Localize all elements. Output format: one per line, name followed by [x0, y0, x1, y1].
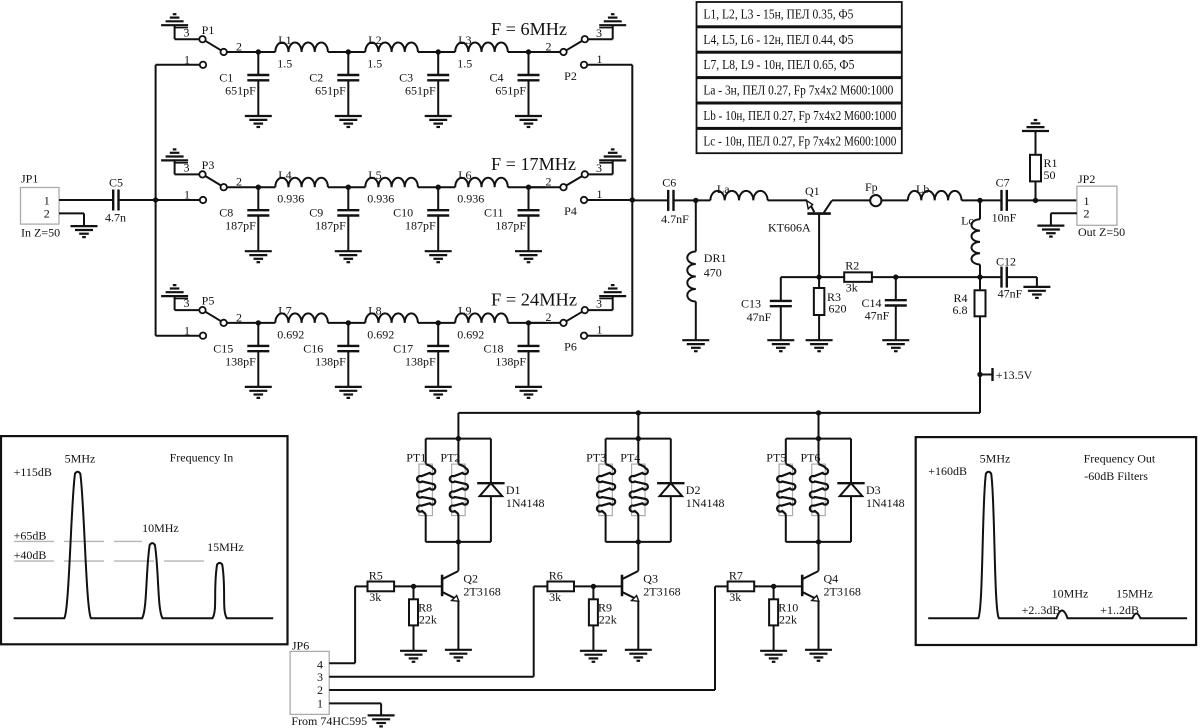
- svg-text:PT1: PT1: [406, 451, 426, 465]
- wire C12 left: [980, 276, 1002, 278]
- node F label F = 6MHz: [491, 19, 567, 39]
- wire C12 right: [1007, 277, 1037, 287]
- ground R1: [1022, 120, 1049, 131]
- capacitor C2: [309, 49, 359, 116]
- svg-text:3: 3: [184, 296, 190, 310]
- svg-text:651pF: 651pF: [225, 84, 256, 98]
- svg-text:47nF: 47nF: [747, 310, 772, 324]
- wire PT3 bottom: [605, 516, 607, 542]
- wire base Q3: [574, 584, 622, 589]
- wire C13 top: [780, 277, 782, 301]
- transformer PT2: [440, 451, 468, 516]
- capacitor C8: [219, 185, 269, 252]
- inductor L6: [455, 168, 508, 206]
- wire R10 bottom: [773, 625, 775, 650]
- ground C14: [882, 340, 909, 351]
- node bottom bus PT5: [786, 539, 851, 544]
- svg-text:1.5: 1.5: [457, 57, 472, 71]
- resistor R8: [409, 599, 437, 626]
- svg-text:22k: 22k: [419, 613, 437, 627]
- svg-text:0.692: 0.692: [457, 327, 484, 341]
- svg-text:1N4148: 1N4148: [866, 496, 905, 510]
- svg-text:651pF: 651pF: [405, 84, 436, 98]
- wire R3 top: [818, 277, 820, 288]
- node Frequency Out curve: [928, 472, 1187, 618]
- inductor Lb: [908, 182, 962, 200]
- svg-text:0.692: 0.692: [367, 327, 394, 341]
- wire D3 top: [850, 439, 852, 484]
- wire Q3 collector: [637, 542, 639, 571]
- wire D1 top: [490, 439, 492, 484]
- node F label F = 24MHz: [491, 290, 577, 310]
- svg-text:DR1: DR1: [704, 251, 727, 265]
- ground switch P3: [161, 149, 199, 174]
- wire PT4 bottom: [637, 516, 639, 542]
- resistor R2: [844, 259, 872, 295]
- wire R1 top: [1035, 131, 1037, 155]
- wire R4 top: [979, 277, 981, 290]
- wire base Q2: [394, 584, 442, 589]
- svg-text:C8: C8: [219, 206, 233, 220]
- wire DR1 top: [695, 200, 697, 251]
- transistor Q4: [802, 571, 861, 601]
- svg-text:JP1: JP1: [21, 171, 38, 185]
- svg-text:+40dB: +40dB: [14, 548, 47, 562]
- svg-text:L2: L2: [368, 33, 381, 47]
- svg-text:138pF: 138pF: [315, 354, 346, 368]
- svg-text:3k: 3k: [549, 590, 561, 604]
- svg-text:L8: L8: [368, 304, 381, 318]
- svg-text:F = 17MHz: F = 17MHz: [491, 154, 576, 174]
- capacitor C4: [489, 49, 539, 116]
- svg-text:470: 470: [704, 266, 722, 280]
- wire JP2 pin2: [1051, 213, 1077, 225]
- ground C18: [515, 387, 542, 398]
- svg-text:+65dB: +65dB: [14, 529, 47, 543]
- capacitor C11: [484, 185, 540, 252]
- svg-text:3k: 3k: [729, 590, 741, 604]
- capacitor C3: [399, 49, 449, 116]
- wire JP1 pin1: [59, 199, 113, 201]
- svg-text:L6: L6: [458, 168, 471, 182]
- svg-text:50: 50: [1044, 168, 1056, 182]
- switch P1: [156, 23, 242, 68]
- wire PT2 bottom: [457, 516, 459, 542]
- wire JP1 pin2: [59, 213, 84, 226]
- svg-text:2: 2: [317, 683, 323, 697]
- transistor Q3: [622, 571, 681, 601]
- wire DR1 bottom: [695, 302, 697, 341]
- ground switch P4: [599, 149, 626, 162]
- inductor DR1: [687, 251, 726, 302]
- svg-text:2T3168: 2T3168: [463, 585, 500, 599]
- svg-text:PT5: PT5: [766, 451, 786, 465]
- resistor R7: [728, 568, 755, 604]
- svg-text:2: 2: [1084, 206, 1090, 220]
- svg-text:1.5: 1.5: [277, 57, 292, 71]
- wire Q4 collector: [818, 542, 820, 571]
- switch P4: [546, 160, 633, 218]
- node Frequency Out box: [916, 437, 1196, 645]
- svg-text:187pF: 187pF: [225, 219, 256, 233]
- wire PT1 bottom: [425, 516, 427, 542]
- transformer PT4: [620, 451, 648, 516]
- svg-text:PT3: PT3: [586, 451, 606, 465]
- svg-text:+1..2dB: +1..2dB: [1100, 603, 1139, 617]
- svg-text:47nF: 47nF: [865, 309, 890, 323]
- wire C14 bottom: [895, 306, 897, 341]
- svg-text:1: 1: [184, 323, 190, 337]
- wire bias line: [781, 274, 844, 279]
- inductor La: [710, 182, 767, 200]
- ground switch P2: [599, 14, 626, 27]
- node +13.5V: [977, 368, 1032, 382]
- ground C17: [425, 387, 452, 398]
- svg-text:4.7n: 4.7n: [105, 211, 126, 225]
- svg-text:From 74HC595: From 74HC595: [291, 714, 367, 728]
- svg-text:47nF: 47nF: [998, 287, 1023, 301]
- ground C16: [335, 387, 362, 398]
- svg-text:JP6: JP6: [292, 638, 309, 652]
- capacitor C17: [393, 320, 449, 387]
- ground R8: [400, 651, 427, 662]
- svg-text:F = 6MHz: F = 6MHz: [491, 19, 567, 39]
- svg-text:P2: P2: [564, 69, 577, 83]
- ground C12: [1023, 287, 1050, 298]
- inductor L2: [365, 33, 418, 71]
- node Frequency Out labels: [928, 451, 1156, 617]
- svg-text:Lb: Lb: [916, 182, 929, 196]
- wire PT5 bottom: [785, 516, 787, 542]
- svg-text:JP2: JP2: [1078, 172, 1095, 186]
- ground R3: [806, 340, 833, 351]
- svg-text:0.936: 0.936: [277, 192, 304, 206]
- diode D3: [837, 483, 904, 510]
- wire rail drop PT1: [457, 413, 459, 439]
- node table row L7: [697, 53, 902, 77]
- svg-text:5MHz: 5MHz: [65, 451, 96, 465]
- svg-text:2T3168: 2T3168: [824, 585, 861, 599]
- wire R4 bottom: [979, 316, 981, 374]
- svg-text:2: 2: [44, 207, 50, 221]
- svg-text:Fp: Fp: [865, 180, 878, 194]
- svg-text:1: 1: [597, 323, 603, 337]
- svg-text:C9: C9: [309, 206, 323, 220]
- diode D2: [657, 483, 724, 510]
- node dB line 40: [14, 560, 211, 562]
- ground C15: [245, 387, 272, 398]
- ground C13: [767, 340, 794, 351]
- switch P6: [546, 296, 633, 354]
- capacitor C12: [996, 255, 1023, 301]
- inductor L8: [365, 304, 418, 342]
- svg-text:R7: R7: [729, 568, 743, 582]
- svg-text:2T3168: 2T3168: [643, 585, 680, 599]
- resistor R4: [953, 290, 986, 317]
- inductor L3: [455, 33, 508, 71]
- wire Lb to C7: [962, 198, 1002, 203]
- wire left bus: [153, 65, 158, 336]
- capacitor C10: [393, 185, 449, 252]
- svg-text:L7, L8, L9 - 10н, ПЕЛ 0.65, Ф5: L7, L8, L9 - 10н, ПЕЛ 0.65, Ф5: [703, 58, 854, 73]
- node table row Lc: [697, 129, 902, 153]
- svg-text:10nF: 10nF: [992, 211, 1017, 225]
- node F label F = 17MHz: [491, 154, 576, 174]
- svg-text:10MHz: 10MHz: [142, 521, 179, 535]
- wire PT5 top: [785, 439, 787, 465]
- wire JP6 pin1: [329, 703, 381, 715]
- wire Q2 emitter: [457, 601, 459, 650]
- node top bus PT3: [606, 436, 671, 441]
- svg-text:In Z=50: In Z=50: [21, 226, 60, 240]
- svg-text:PT2: PT2: [440, 451, 460, 465]
- inductor L9: [455, 304, 508, 342]
- svg-text:C16: C16: [303, 341, 323, 355]
- wire main line: [227, 51, 560, 53]
- node dB line 65: [14, 540, 142, 542]
- wire C14 top: [895, 277, 897, 300]
- svg-text:651pF: 651pF: [315, 84, 346, 98]
- svg-text:L7: L7: [278, 304, 291, 318]
- wire C13 bottom: [780, 306, 782, 340]
- svg-text:C7: C7: [996, 175, 1010, 189]
- svg-text:22k: 22k: [599, 613, 617, 627]
- inductor L1: [275, 33, 328, 71]
- ground Q4: [805, 650, 832, 661]
- node bottom bus PT1: [426, 539, 491, 544]
- ground C8: [245, 251, 272, 262]
- wire PT4 top: [637, 439, 639, 465]
- svg-text:3k: 3k: [369, 590, 381, 604]
- svg-text:C3: C3: [399, 71, 413, 85]
- wire R8 top: [413, 586, 415, 599]
- node Frequency In labels: [14, 451, 244, 562]
- capacitor C16: [303, 320, 359, 387]
- resistor R9: [589, 599, 617, 626]
- capacitor C7: [992, 175, 1017, 224]
- connector JP1: [21, 171, 61, 239]
- svg-text:6.8: 6.8: [953, 303, 968, 317]
- svg-text:C5: C5: [109, 176, 123, 190]
- wire rail drop PT3: [637, 413, 639, 439]
- ground Q3: [625, 650, 652, 661]
- ground R9: [580, 651, 607, 662]
- wire Q1 base: [818, 214, 820, 278]
- svg-text:1N4148: 1N4148: [686, 496, 725, 510]
- capacitor C18: [483, 320, 539, 387]
- svg-text:3: 3: [184, 161, 190, 175]
- svg-text:P3: P3: [202, 158, 215, 172]
- wire PT1 top: [425, 439, 427, 465]
- svg-text:Lc - 10н, ПЕЛ 0.27, Fp 7x4x2 М: Lc - 10н, ПЕЛ 0.27, Fp 7x4x2 М600:1000: [703, 134, 896, 149]
- svg-text:3: 3: [184, 25, 190, 39]
- svg-text:Frequency In: Frequency In: [170, 451, 234, 465]
- node bottom bus PT3: [606, 539, 671, 544]
- ground C1: [245, 116, 272, 127]
- svg-text:C13: C13: [741, 297, 761, 311]
- svg-text:1.5: 1.5: [367, 57, 382, 71]
- svg-text:P5: P5: [202, 294, 215, 308]
- svg-text:C15: C15: [213, 341, 233, 355]
- capacitor C5: [105, 176, 126, 225]
- svg-text:La - 3н, ПЕЛ 0.27, Fp 7x4x2 М6: La - 3н, ПЕЛ 0.27, Fp 7x4x2 М600:1000: [703, 84, 893, 99]
- switch P5: [156, 294, 242, 339]
- wire bus to C6: [632, 199, 668, 201]
- resistor R6: [547, 568, 574, 604]
- wire R3 bottom: [818, 315, 820, 340]
- wire R9 top: [592, 586, 594, 599]
- ground R10: [760, 651, 787, 662]
- inductor Lc: [961, 213, 980, 264]
- resistor R3: [814, 288, 847, 316]
- svg-text:L3: L3: [458, 33, 471, 47]
- svg-text:Out Z=50: Out Z=50: [1078, 225, 1125, 239]
- ground switch P1: [161, 14, 199, 39]
- wire Q2 collector: [457, 542, 459, 571]
- wire Lc bottom: [979, 265, 981, 278]
- wire PT6 top: [818, 439, 820, 465]
- svg-text:R6: R6: [549, 568, 563, 582]
- inductor L7: [275, 304, 328, 342]
- ground switch P5: [161, 285, 199, 310]
- svg-text:2: 2: [546, 310, 552, 324]
- wire D2 top: [670, 439, 672, 484]
- wire PT6 bottom: [818, 516, 820, 542]
- diode D1: [477, 483, 544, 510]
- svg-text:La: La: [717, 182, 730, 196]
- svg-text:3k: 3k: [846, 280, 858, 294]
- wire right bus: [630, 65, 635, 336]
- svg-text:C2: C2: [309, 71, 323, 85]
- wire PT2 top: [457, 439, 459, 465]
- transformer PT6: [801, 451, 829, 516]
- ground C2: [335, 116, 362, 127]
- capacitor C6: [661, 176, 689, 226]
- connector JP2: [1077, 172, 1125, 239]
- svg-text:1: 1: [317, 697, 323, 711]
- node table row L4: [697, 27, 902, 51]
- transformer PT5: [766, 451, 795, 516]
- wire Q1 collector: [832, 199, 870, 201]
- svg-text:C17: C17: [393, 341, 413, 355]
- wire Fp to Lb: [881, 199, 908, 201]
- svg-text:R2: R2: [845, 259, 859, 273]
- capacitor C13: [741, 297, 792, 325]
- resistor R1: [1030, 155, 1058, 182]
- svg-text:Q2: Q2: [463, 572, 478, 586]
- wire C7 to JP2: [1007, 198, 1077, 203]
- node Fp: [865, 180, 881, 206]
- svg-text:+115dB: +115dB: [14, 465, 52, 479]
- svg-text:Frequency Out: Frequency Out: [1084, 452, 1156, 466]
- wire main line: [227, 322, 560, 324]
- svg-text:P1: P1: [202, 23, 215, 37]
- svg-text:C12: C12: [996, 255, 1016, 269]
- node Frequency In curve: [14, 472, 274, 618]
- svg-text:2: 2: [546, 175, 552, 189]
- svg-text:PT6: PT6: [801, 451, 821, 465]
- svg-text:L1: L1: [278, 33, 291, 47]
- wire JP6 pin2: [329, 586, 727, 690]
- ground DR1: [682, 340, 709, 351]
- switch P2: [546, 25, 633, 83]
- inductor L4: [275, 168, 328, 206]
- svg-text:+13.5V: +13.5V: [996, 368, 1033, 382]
- svg-text:KT606A: KT606A: [768, 220, 811, 234]
- inductor L5: [365, 168, 418, 206]
- svg-text:Lc: Lc: [961, 213, 974, 227]
- wire D3 bottom: [850, 496, 852, 542]
- svg-text:2: 2: [546, 39, 552, 53]
- svg-text:C10: C10: [393, 206, 413, 220]
- svg-text:Q4: Q4: [824, 572, 839, 586]
- ground JP1: [71, 226, 98, 237]
- connector JP6: [290, 638, 367, 728]
- transistor Q2: [442, 571, 501, 601]
- svg-text:15MHz: 15MHz: [1116, 587, 1153, 601]
- svg-text:620: 620: [829, 302, 847, 316]
- node table row L1: [697, 2, 902, 26]
- svg-text:R5: R5: [369, 568, 383, 582]
- wire D1 bottom: [490, 496, 492, 542]
- svg-text:L5: L5: [368, 168, 381, 182]
- svg-text:L9: L9: [458, 304, 471, 318]
- svg-text:Lb - 10н, ПЕЛ 0.27, Fp 7x4x2 М: Lb - 10н, ПЕЛ 0.27, Fp 7x4x2 М600:1000: [703, 109, 896, 124]
- svg-text:138pF: 138pF: [405, 354, 436, 368]
- ground JP2: [1037, 226, 1064, 237]
- svg-text:PT4: PT4: [620, 451, 640, 465]
- ground C4: [515, 116, 542, 127]
- ground JP6 pin1: [368, 715, 395, 726]
- svg-text:P6: P6: [564, 340, 577, 354]
- svg-text:10MHz: 10MHz: [1052, 587, 1089, 601]
- wire La to Q1: [768, 199, 808, 201]
- ground C9: [335, 251, 362, 262]
- svg-text:3: 3: [317, 670, 323, 684]
- capacitor C1: [219, 49, 269, 116]
- node top bus PT1: [426, 436, 491, 441]
- switch P3: [156, 158, 242, 203]
- ground Q2: [445, 650, 472, 661]
- svg-text:L4: L4: [278, 168, 291, 182]
- svg-text:P4: P4: [564, 204, 577, 218]
- svg-text:4.7nF: 4.7nF: [661, 212, 689, 226]
- svg-text:1N4148: 1N4148: [506, 496, 545, 510]
- resistor R5: [368, 568, 395, 604]
- svg-text:1: 1: [44, 194, 50, 208]
- svg-text:L1, L2, L3 - 15н, ПЕЛ 0.35, Ф5: L1, L2, L3 - 15н, ПЕЛ 0.35, Ф5: [703, 7, 853, 22]
- svg-text:C4: C4: [489, 71, 503, 85]
- svg-text:1: 1: [597, 187, 603, 201]
- svg-text:187pF: 187pF: [315, 219, 346, 233]
- svg-text:Q3: Q3: [643, 572, 658, 586]
- transistor Q1: [768, 184, 832, 234]
- wire JP6 pin3: [329, 586, 547, 676]
- wire base Q4: [754, 584, 802, 589]
- capacitor C9: [309, 185, 359, 252]
- node table row La: [697, 78, 902, 102]
- svg-text:L4, L5, L6 - 12н, ПЕЛ 0.44, Ф5: L4, L5, L6 - 12н, ПЕЛ 0.44, Ф5: [703, 33, 853, 48]
- svg-text:F = 24MHz: F = 24MHz: [491, 290, 577, 310]
- wire JP6 pin4: [329, 586, 367, 663]
- ground C11: [515, 251, 542, 262]
- svg-text:5MHz: 5MHz: [980, 451, 1011, 465]
- svg-text:187pF: 187pF: [495, 219, 526, 233]
- svg-text:C11: C11: [484, 206, 504, 220]
- resistor R10: [769, 599, 798, 626]
- wire R1 bottom: [1035, 181, 1037, 200]
- wire Q4 emitter: [818, 601, 820, 650]
